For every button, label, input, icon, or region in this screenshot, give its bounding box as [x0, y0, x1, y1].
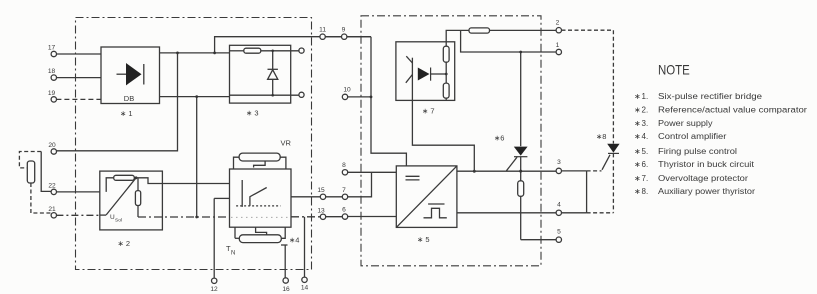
svg-text:∗: ∗	[634, 106, 641, 115]
svg-text:2: 2	[556, 20, 560, 27]
svg-text:∗ 5: ∗ 5	[417, 235, 430, 244]
svg-text:18: 18	[48, 68, 56, 75]
svg-text:NOTE: NOTE	[658, 61, 690, 77]
svg-text:3: 3	[557, 159, 561, 166]
svg-text:12: 12	[210, 286, 218, 293]
svg-text:2.: 2.	[642, 106, 649, 115]
svg-text:∗: ∗	[634, 92, 641, 101]
svg-text:19: 19	[48, 90, 56, 97]
svg-text:14: 14	[301, 285, 309, 292]
svg-text:∗ 3: ∗ 3	[246, 109, 259, 118]
svg-text:Control amplifier: Control amplifier	[658, 132, 727, 141]
svg-text:∗: ∗	[634, 119, 641, 128]
svg-text:Six-pulse rectifier bridge: Six-pulse rectifier bridge	[658, 92, 763, 101]
svg-text:22: 22	[48, 183, 56, 190]
svg-text:4: 4	[557, 201, 561, 208]
svg-text:5: 5	[557, 229, 561, 236]
svg-text:VR: VR	[281, 139, 292, 148]
svg-text:∗4: ∗4	[289, 236, 299, 245]
svg-text:∗8: ∗8	[596, 132, 606, 141]
svg-text:Thyristor in buck circuit: Thyristor in buck circuit	[658, 160, 755, 169]
svg-text:Power supply: Power supply	[658, 119, 713, 128]
svg-text:7: 7	[342, 187, 346, 194]
svg-text:DB: DB	[124, 94, 134, 103]
svg-text:∗ 1: ∗ 1	[120, 109, 133, 118]
svg-text:4.: 4.	[642, 132, 649, 141]
svg-text:11: 11	[319, 27, 326, 34]
svg-text:∗ 2: ∗ 2	[118, 239, 131, 248]
svg-text:Firing pulse control: Firing pulse control	[658, 147, 737, 156]
svg-text:∗: ∗	[634, 160, 641, 169]
svg-text:Auxiliary power thyristor: Auxiliary power thyristor	[658, 187, 755, 196]
svg-text:8.: 8.	[642, 187, 649, 196]
svg-text:17: 17	[48, 45, 56, 52]
svg-text:∗: ∗	[634, 187, 641, 196]
svg-text:Overvoltage protector: Overvoltage protector	[658, 174, 748, 183]
svg-text:∗6: ∗6	[494, 133, 504, 142]
svg-text:Reference/actual value compara: Reference/actual value comparator	[658, 106, 807, 115]
svg-text:5.: 5.	[642, 147, 649, 156]
svg-text:7.: 7.	[642, 174, 649, 183]
svg-text:6: 6	[342, 207, 346, 214]
svg-text:20: 20	[48, 142, 56, 149]
svg-text:∗: ∗	[634, 174, 641, 183]
svg-text:3.: 3.	[642, 119, 649, 128]
svg-text:21: 21	[48, 206, 56, 213]
svg-text:13: 13	[317, 208, 325, 215]
svg-text:1: 1	[556, 42, 560, 49]
svg-text:∗ 7: ∗ 7	[422, 107, 435, 116]
svg-text:8: 8	[342, 162, 346, 169]
svg-text:15: 15	[317, 187, 325, 194]
svg-text:9: 9	[342, 27, 346, 34]
svg-text:Sol: Sol	[115, 218, 122, 224]
svg-text:10: 10	[343, 87, 351, 94]
svg-text:6.: 6.	[642, 160, 649, 169]
svg-text:N: N	[231, 251, 235, 257]
svg-text:16: 16	[282, 286, 290, 293]
svg-text:∗: ∗	[634, 132, 641, 141]
svg-text:∗: ∗	[634, 147, 641, 156]
svg-text:1.: 1.	[642, 92, 649, 101]
